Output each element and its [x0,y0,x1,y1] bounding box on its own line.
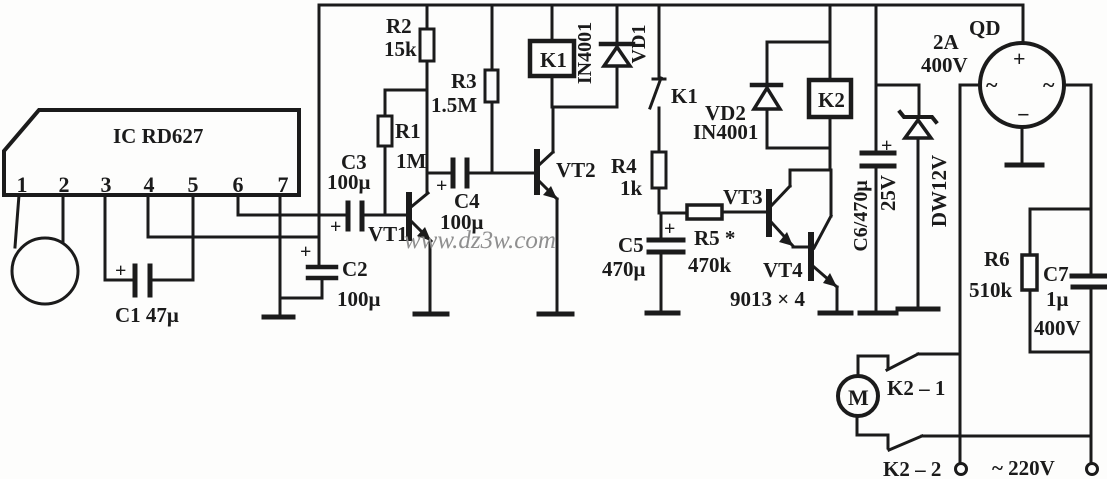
svg-text:+: + [881,135,892,157]
svg-text:9013 × 4: 9013 × 4 [730,287,805,311]
svg-text:IC RD627: IC RD627 [113,124,203,148]
wire R6/C7 bottom [1030,351,1091,354]
terminal left [956,464,967,475]
transistor VT4 [730,170,837,311]
svg-text:VT3: VT3 [723,185,763,209]
capacitor C5 [602,213,683,311]
ground VT4 [820,311,851,316]
capacitor C2 [300,241,381,311]
bridge rectifier QD [921,5,1091,163]
wire C1 to pin5 [152,195,193,280]
capacitor C7 [1034,262,1106,340]
ground DW12V [898,307,938,312]
svg-text:C6/470μ: C6/470μ [850,180,872,252]
svg-text:2A: 2A [933,30,960,54]
svg-text:R2: R2 [386,14,412,38]
wire VT1 emitter to ground [429,241,432,312]
svg-text:www.dz3w.com: www.dz3w.com [404,227,556,254]
wire C3 to VT1 base [364,214,406,217]
svg-text:1M: 1M [396,149,427,173]
resistor R1 [378,90,427,215]
AC right line lower [1090,289,1093,463]
zener diode DW12V [900,85,951,307]
node wire K1/VD1/VT2 [552,106,617,109]
svg-text:C7: C7 [1043,262,1069,286]
ground VT1 [415,312,447,317]
terminal bar under QD [1007,163,1042,168]
svg-text:+: + [330,216,341,238]
AC left line [959,85,962,463]
resistor R3 [431,5,498,173]
ground C6 [860,311,896,316]
IC pin numbers 1-7 [17,172,289,197]
relay coil K2 [809,5,851,170]
svg-text:IN4001: IN4001 [574,22,596,84]
svg-text:400V: 400V [1034,316,1081,340]
svg-text:1k: 1k [620,176,643,200]
svg-text:R1: R1 [395,119,421,143]
ground C5 [647,311,678,316]
svg-text:+: + [300,241,311,263]
svg-text:2: 2 [59,172,70,197]
svg-text:VT4: VT4 [763,258,803,282]
transistor VT1 [368,193,431,246]
resistor R4 [611,152,666,213]
capacitor C6 [850,5,900,311]
wire pin3 to C1 [105,195,133,280]
node wire R4/C5/R5 [659,212,687,215]
resistor R2 [384,5,434,193]
motor M [838,356,878,435]
capacitor C1 [115,260,179,327]
svg-text:−: − [1017,102,1030,127]
svg-text:+: + [664,218,675,240]
capacitor C4 [428,160,534,234]
svg-text:6: 6 [233,172,244,197]
svg-text:K2: K2 [818,88,845,112]
svg-text:R6: R6 [984,247,1010,271]
svg-text:+: + [436,175,447,197]
diode VD2 [693,42,830,148]
ground VT2 [539,312,572,317]
svg-text:5: 5 [188,172,199,197]
svg-text:25V: 25V [876,175,900,211]
AC right line upper [1090,85,1093,274]
microphone B [12,195,78,304]
svg-text:~: ~ [986,72,998,97]
svg-text:R3: R3 [451,69,477,93]
wire VT2 emitter to ground [556,199,559,312]
svg-text:470μ: 470μ [602,257,646,281]
svg-text:15k: 15k [384,37,417,61]
svg-text:R4: R4 [611,154,637,178]
svg-text:C1 47μ: C1 47μ [115,303,179,327]
svg-text:VT1: VT1 [368,222,408,246]
resistor R5 [687,205,766,277]
wire VT2 collector up [552,107,555,152]
transistor VT2 [537,152,596,199]
svg-text:C2: C2 [342,257,368,281]
svg-text:1μ: 1μ [1046,287,1069,311]
relay contact K2-2 [857,435,1091,479]
wire pin4 to rail-left [148,195,319,237]
relay coil K1 [530,5,574,107]
svg-text:+: + [1013,46,1026,71]
svg-text:1: 1 [17,172,28,197]
svg-text:~: ~ [1043,72,1055,97]
svg-text:IN4001: IN4001 [693,120,758,144]
wire VT3 emitter to VT4 base [793,246,809,249]
svg-text:VT2: VT2 [556,158,596,182]
svg-text:7: 7 [278,172,289,197]
diode VD1 [574,5,650,107]
svg-text:470k: 470k [688,253,732,277]
V+ rail [319,5,1023,265]
wire pin7 down [279,195,282,316]
svg-text:1.5M: 1.5M [431,93,477,117]
wire pin6 to C3 [238,195,346,215]
capacitor C3 [327,150,371,238]
relay contact K1 [650,5,698,152]
wire R6/C7 top [1030,208,1091,211]
svg-text:M: M [848,385,869,410]
svg-text:100μ: 100μ [327,170,371,194]
transistor VT3 [723,170,830,246]
wire C2 bottom to ground line [280,280,322,298]
svg-text:DW12V: DW12V [927,155,951,227]
svg-text:100μ: 100μ [337,287,381,311]
ground pin7 [264,315,293,320]
terminal right [1087,464,1098,475]
svg-text:C5: C5 [618,233,644,257]
svg-text:+: + [115,260,126,282]
wire C6 to zener [876,84,919,87]
svg-text:400V: 400V [921,53,968,77]
svg-text:QD: QD [969,16,1001,40]
svg-text:3: 3 [101,172,112,197]
svg-text:K1: K1 [540,48,567,72]
svg-text:4: 4 [144,172,155,197]
svg-text:K1: K1 [671,84,698,108]
relay contact K2-1 [858,354,960,400]
svg-text:K2 – 2: K2 – 2 [883,457,941,479]
IC U1 RD627 body [4,110,299,195]
svg-text:510k: 510k [969,278,1013,302]
svg-text:K2 – 1: K2 – 1 [887,376,945,400]
svg-text:~ 220V: ~ 220V [992,456,1055,479]
svg-text:R5 *: R5 * [694,226,735,250]
wire VT4 emitter to ground [836,287,839,311]
resistor R6 [969,209,1037,352]
svg-text:VD1: VD1 [628,25,650,64]
